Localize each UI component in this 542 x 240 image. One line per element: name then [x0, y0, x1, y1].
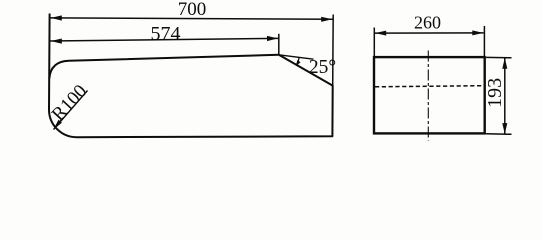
svg-text:193: 193 — [484, 78, 506, 108]
dimension line 700 — [50, 18, 333, 19]
extension line 260 left — [373, 28, 375, 58]
angle arc arrowhead — [296, 60, 301, 66]
svg-text:700: 700 — [178, 0, 207, 20]
arrow 700 right — [321, 17, 332, 22]
leader arrow R100 — [54, 120, 62, 130]
vertical centerline — [427, 51, 429, 141]
extension line for 574 (x=279) — [278, 34, 280, 55]
extension line 193 top — [486, 56, 512, 58]
arrow 193 top — [502, 58, 507, 69]
svg-text:574: 574 — [151, 23, 181, 45]
svg-text:260: 260 — [414, 13, 441, 33]
arrow 260 right — [472, 30, 483, 35]
arrow 193 bottom — [502, 123, 507, 134]
part outline (end view, right) — [374, 57, 485, 133]
part outline lower (left edge, R100 arc, bottom, right edge, chamfer) — [49, 14, 333, 138]
hidden dashed line — [375, 86, 484, 87]
angle arc 25deg — [297, 58, 300, 65]
dimension line 574 — [50, 38, 278, 41]
arrow 700 left — [51, 15, 62, 20]
leader line R100 — [54, 91, 88, 130]
angle reference line 25deg — [279, 55, 314, 59]
arrow 574 right — [267, 36, 278, 41]
extension line right (x=333) — [332, 15, 335, 86]
dimension line 193 — [504, 58, 506, 134]
arrow 260 left — [375, 31, 386, 36]
part outline (side view, left) — [49, 55, 278, 79]
dimension line 260 — [375, 32, 484, 34]
extension line 260 right — [483, 26, 485, 57]
svg-text:25°: 25° — [309, 57, 336, 78]
extension line 193 bottom — [486, 133, 512, 136]
arrow 574 left — [51, 39, 62, 44]
